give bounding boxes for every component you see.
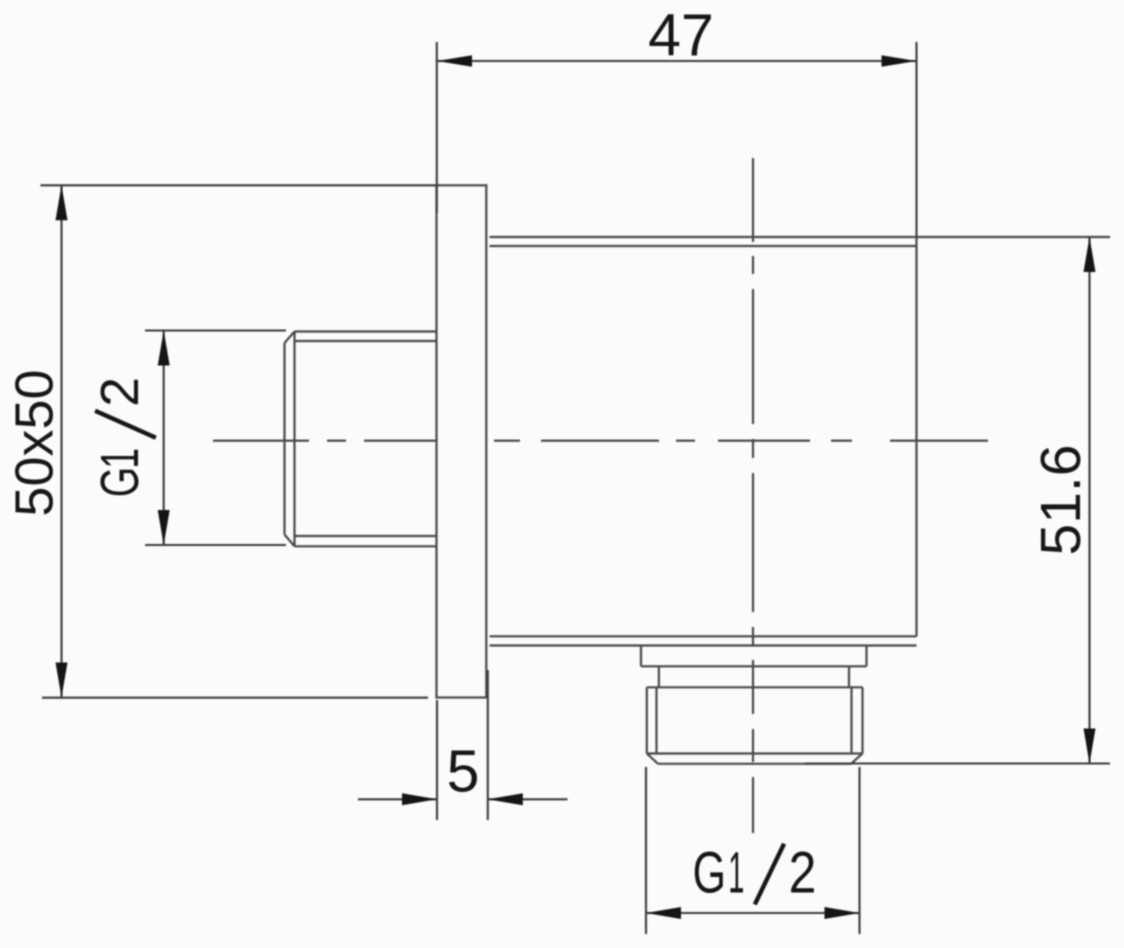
svg-text:1: 1 bbox=[728, 839, 744, 905]
svg-text:50x50: 50x50 bbox=[5, 369, 65, 516]
svg-text:51.6: 51.6 bbox=[1029, 445, 1093, 556]
svg-text:2: 2 bbox=[91, 377, 150, 407]
svg-text:G: G bbox=[90, 467, 149, 497]
svg-text:2: 2 bbox=[789, 841, 817, 905]
svg-text:47: 47 bbox=[648, 3, 714, 69]
svg-text:G: G bbox=[693, 840, 726, 905]
svg-text:5: 5 bbox=[447, 739, 480, 805]
svg-text:1: 1 bbox=[89, 448, 149, 469]
